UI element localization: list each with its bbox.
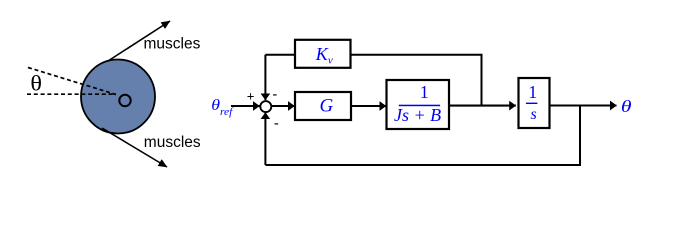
svg-text:muscles: muscles	[144, 36, 201, 53]
svg-text:θref: θref	[211, 96, 234, 118]
svg-text:G: G	[320, 95, 334, 116]
svg-text:-: -	[273, 87, 278, 102]
svg-text:1: 1	[420, 82, 429, 102]
svg-text:+: +	[247, 89, 255, 104]
svg-text:muscles: muscles	[144, 134, 201, 151]
svg-text:s: s	[530, 106, 536, 123]
svg-text:1: 1	[528, 82, 537, 102]
svg-text:Js + B: Js + B	[394, 105, 441, 125]
svg-text:θ: θ	[621, 98, 632, 116]
svg-text:θ: θ	[30, 71, 42, 96]
svg-text:-: -	[274, 116, 279, 131]
